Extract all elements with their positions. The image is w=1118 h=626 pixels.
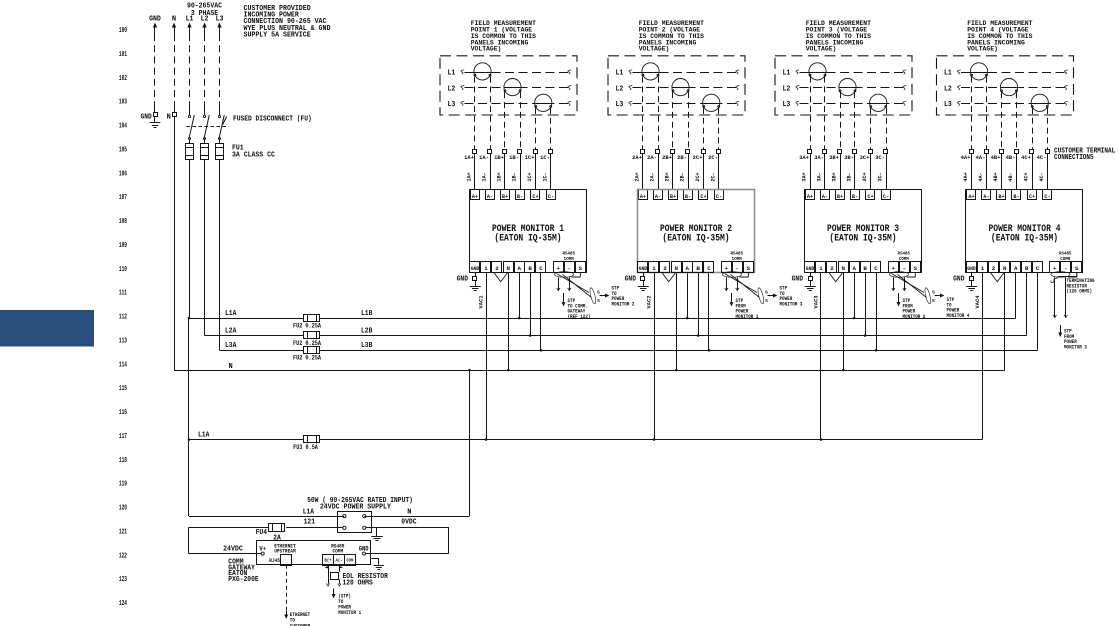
svg-text:2: 2 — [830, 265, 834, 272]
svg-text:C+: C+ — [867, 193, 874, 200]
svg-text:2A-: 2A- — [647, 154, 657, 161]
svg-text:120 OHMS: 120 OHMS — [343, 579, 373, 587]
svg-text:124: 124 — [119, 600, 127, 608]
svg-text:(EATON IQ-35M): (EATON IQ-35M) — [662, 233, 729, 245]
svg-text:C: C — [1036, 265, 1040, 272]
svg-text:B+: B+ — [670, 193, 677, 200]
svg-text:2B-: 2B- — [680, 172, 686, 181]
svg-text:3A+: 3A+ — [799, 154, 809, 161]
svg-text:GND: GND — [792, 276, 803, 284]
svg-text:N: N — [842, 265, 846, 272]
svg-text:A: A — [852, 265, 856, 272]
svg-text:1A-: 1A- — [482, 172, 488, 181]
svg-text:FU2 0.25A: FU2 0.25A — [293, 355, 321, 362]
svg-text:L3: L3 — [216, 16, 224, 24]
svg-text:FU2 0.25A: FU2 0.25A — [293, 323, 321, 330]
svg-text:105: 105 — [119, 146, 127, 154]
svg-text:MONITOR 1: MONITOR 1 — [736, 314, 759, 320]
svg-text:3A-: 3A- — [817, 172, 823, 181]
svg-text:102: 102 — [119, 75, 127, 83]
svg-text:VOLTAGE): VOLTAGE) — [471, 46, 502, 53]
svg-text:1C-: 1C- — [540, 154, 550, 161]
svg-text:2C+: 2C+ — [695, 172, 701, 181]
svg-text:100: 100 — [119, 27, 127, 35]
svg-text:N: N — [407, 508, 411, 516]
svg-text:1C-: 1C- — [543, 172, 549, 181]
svg-text:COMM: COMM — [732, 256, 742, 262]
svg-text:S: S — [1075, 265, 1079, 272]
svg-text:1B-: 1B- — [512, 172, 518, 181]
svg-text:S: S — [597, 290, 600, 296]
svg-text:24VDC: 24VDC — [223, 545, 243, 553]
svg-text:A-: A- — [487, 193, 493, 200]
svg-text:C+: C+ — [700, 193, 707, 200]
svg-text:2A+: 2A+ — [635, 172, 641, 181]
svg-text:GND: GND — [149, 16, 161, 24]
svg-text:2B+: 2B+ — [665, 172, 671, 181]
svg-text:L3: L3 — [783, 101, 791, 109]
svg-text:GND: GND — [359, 545, 369, 552]
svg-text:1: 1 — [652, 265, 656, 272]
svg-text:3A-: 3A- — [814, 154, 824, 161]
svg-text:L2: L2 — [616, 85, 624, 93]
svg-text:MONITOR 1: MONITOR 1 — [338, 610, 361, 616]
svg-text:122: 122 — [119, 552, 127, 560]
svg-text:UPSTREAM: UPSTREAM — [274, 549, 295, 555]
svg-text:1A+: 1A+ — [464, 154, 474, 161]
svg-text:L3: L3 — [616, 101, 624, 109]
svg-text:RS485: RS485 — [731, 251, 744, 257]
svg-text:A-: A- — [822, 193, 828, 200]
svg-text:4A+: 4A+ — [961, 154, 971, 161]
svg-text:111: 111 — [119, 290, 127, 298]
svg-text:S: S — [765, 298, 768, 304]
svg-text:120: 120 — [119, 505, 127, 513]
svg-text:VOLTAGE): VOLTAGE) — [639, 46, 670, 53]
svg-text:+: + — [892, 265, 896, 272]
svg-text:121: 121 — [304, 519, 315, 527]
svg-text:COMM: COMM — [1060, 256, 1070, 262]
svg-text:C: C — [539, 265, 543, 272]
svg-text:COMM: COMM — [564, 256, 574, 262]
svg-text:2C-: 2C- — [711, 172, 717, 181]
svg-text:GND: GND — [471, 266, 480, 272]
svg-text:A(-: A(- — [336, 559, 343, 564]
svg-text:B: B — [1025, 265, 1029, 272]
svg-text:4B-: 4B- — [1008, 172, 1014, 181]
svg-text:(REF 122): (REF 122) — [568, 314, 591, 320]
svg-text:MONITOR 2: MONITOR 2 — [612, 301, 635, 307]
svg-text:A-: A- — [983, 193, 989, 200]
svg-text:4B+: 4B+ — [993, 172, 999, 181]
svg-text:RS485: RS485 — [1059, 251, 1072, 257]
svg-text:1C+: 1C+ — [527, 172, 533, 181]
svg-text:L1A: L1A — [225, 310, 237, 318]
svg-text:B: B — [863, 265, 867, 272]
svg-text:C-: C- — [716, 193, 722, 200]
svg-text:1: 1 — [981, 265, 985, 272]
svg-text:A+: A+ — [968, 193, 975, 200]
svg-text:A+: A+ — [807, 193, 814, 200]
svg-text:1B+: 1B+ — [494, 154, 504, 161]
svg-text:VAC2: VAC2 — [645, 295, 652, 309]
svg-text:2: 2 — [992, 265, 996, 272]
svg-text:2: 2 — [663, 265, 667, 272]
svg-text:3A CLASS CC: 3A CLASS CC — [232, 152, 275, 160]
svg-text:A+: A+ — [640, 193, 647, 200]
svg-text:N: N — [172, 16, 176, 24]
svg-text:N: N — [1003, 265, 1007, 272]
svg-text:V+: V+ — [259, 545, 266, 552]
svg-text:RJ45: RJ45 — [269, 558, 280, 564]
svg-text:107: 107 — [119, 194, 127, 202]
svg-text:VAC4: VAC4 — [974, 295, 981, 309]
svg-text:B-: B- — [685, 193, 691, 200]
svg-text:S: S — [765, 290, 768, 296]
svg-text:L2: L2 — [944, 85, 952, 93]
svg-text:2C-: 2C- — [708, 154, 718, 161]
svg-text:L1: L1 — [616, 70, 624, 78]
svg-text:1C+: 1C+ — [525, 154, 535, 161]
svg-text:L2: L2 — [201, 16, 209, 24]
svg-text:COMM: COMM — [899, 256, 909, 262]
svg-text:4A+: 4A+ — [963, 172, 969, 181]
svg-text:FUSED DISCONNECT (FU): FUSED DISCONNECT (FU) — [233, 116, 312, 124]
svg-text:106: 106 — [119, 170, 127, 178]
svg-text:VOLTAGE): VOLTAGE) — [967, 46, 998, 53]
svg-text:4C-: 4C- — [1037, 154, 1047, 161]
svg-text:A: A — [517, 265, 521, 272]
svg-text:L3A: L3A — [225, 342, 237, 350]
svg-text:B: B — [696, 265, 700, 272]
svg-text:C-: C- — [883, 193, 889, 200]
svg-text:(EATON IQ-35M): (EATON IQ-35M) — [494, 233, 561, 245]
svg-text:S: S — [747, 265, 751, 272]
svg-text:1B+: 1B+ — [497, 172, 503, 181]
svg-text:+: + — [557, 265, 561, 272]
svg-text:L3: L3 — [944, 101, 952, 109]
svg-text:2: 2 — [495, 265, 499, 272]
svg-text:(120 OHMS): (120 OHMS) — [1067, 289, 1093, 295]
svg-text:115: 115 — [119, 385, 127, 393]
svg-text:1A-: 1A- — [479, 154, 489, 161]
svg-text:2A-: 2A- — [650, 172, 656, 181]
svg-text:CONNECTIONS: CONNECTIONS — [1054, 154, 1094, 162]
svg-text:C: C — [874, 265, 878, 272]
svg-text:1: 1 — [484, 265, 488, 272]
svg-text:4A-: 4A- — [978, 172, 984, 181]
svg-text:SUPPLY 5A SERVICE: SUPPLY 5A SERVICE — [244, 32, 311, 40]
svg-text:GND: GND — [953, 276, 964, 284]
svg-text:S: S — [579, 265, 583, 272]
svg-text:COM: COM — [346, 560, 353, 564]
svg-text:FU3 0.5A: FU3 0.5A — [293, 444, 318, 451]
svg-text:S: S — [932, 290, 935, 296]
svg-text:108: 108 — [119, 218, 127, 226]
svg-text:0VDC: 0VDC — [401, 519, 416, 527]
svg-text:N: N — [167, 114, 171, 122]
svg-text:GND: GND — [639, 266, 648, 272]
svg-text:118: 118 — [119, 457, 127, 465]
svg-text:-: - — [1064, 265, 1067, 272]
svg-text:B(+: B(+ — [325, 559, 332, 564]
svg-text:+: + — [725, 265, 729, 272]
svg-text:24VDC POWER SUPPLY: 24VDC POWER SUPPLY — [320, 504, 392, 512]
svg-text:-: - — [903, 265, 906, 272]
svg-text:S: S — [597, 298, 600, 304]
svg-text:B-: B- — [1013, 193, 1019, 200]
svg-text:COMM: COMM — [332, 549, 343, 555]
svg-text:L1: L1 — [944, 70, 952, 78]
svg-text:3C+: 3C+ — [862, 172, 868, 181]
svg-text:VAC1: VAC1 — [477, 295, 484, 309]
svg-text:A+: A+ — [472, 193, 479, 200]
svg-text:L1B: L1B — [361, 310, 373, 318]
svg-text:L2B: L2B — [361, 328, 373, 336]
svg-text:S: S — [932, 298, 935, 304]
svg-text:3B-: 3B- — [844, 154, 854, 161]
svg-text:4B-: 4B- — [1006, 154, 1016, 161]
svg-text:MONITOR 2: MONITOR 2 — [903, 314, 926, 320]
svg-text:(EATON IQ-35M): (EATON IQ-35M) — [991, 233, 1058, 245]
svg-text:3A+: 3A+ — [802, 172, 808, 181]
svg-text:C: C — [707, 265, 711, 272]
svg-text:(EATON IQ-35M): (EATON IQ-35M) — [829, 233, 896, 245]
svg-text:2A+: 2A+ — [632, 154, 642, 161]
svg-text:-: - — [736, 265, 739, 272]
svg-text:GND: GND — [141, 114, 152, 122]
svg-text:L1: L1 — [448, 70, 456, 78]
svg-text:PXG-200E: PXG-200E — [228, 576, 258, 584]
svg-text:104: 104 — [119, 123, 127, 131]
svg-text:B+: B+ — [998, 193, 1005, 200]
svg-text:A: A — [685, 265, 689, 272]
svg-text:4B+: 4B+ — [991, 154, 1001, 161]
svg-text:2B+: 2B+ — [662, 154, 672, 161]
svg-text:A: A — [1014, 265, 1018, 272]
svg-text:B+: B+ — [837, 193, 844, 200]
svg-text:B-: B- — [852, 193, 858, 200]
svg-text:L2A: L2A — [225, 328, 237, 336]
svg-text:3C+: 3C+ — [860, 154, 870, 161]
svg-text:C+: C+ — [1029, 193, 1036, 200]
svg-text:GND: GND — [806, 266, 815, 272]
svg-text:109: 109 — [119, 242, 127, 250]
svg-text:3C-: 3C- — [878, 172, 884, 181]
svg-text:113: 113 — [119, 337, 127, 345]
svg-text:121: 121 — [119, 528, 127, 536]
svg-text:4A-: 4A- — [976, 154, 986, 161]
svg-text:FU4: FU4 — [256, 529, 267, 537]
svg-text:GND: GND — [625, 276, 636, 284]
svg-text:4C-: 4C- — [1039, 172, 1045, 181]
svg-text:3B+: 3B+ — [829, 154, 839, 161]
svg-text:L1A: L1A — [198, 432, 210, 440]
svg-text:L3: L3 — [448, 101, 456, 109]
svg-text:MONITOR 4: MONITOR 4 — [947, 313, 970, 319]
svg-text:123: 123 — [119, 576, 127, 584]
svg-text:L2: L2 — [448, 85, 456, 93]
svg-text:1B-: 1B- — [509, 154, 519, 161]
svg-text:C-: C- — [548, 193, 554, 200]
svg-text:1A+: 1A+ — [467, 172, 473, 181]
svg-text:VAC3: VAC3 — [812, 295, 819, 309]
svg-text:VOLTAGE): VOLTAGE) — [806, 46, 837, 53]
svg-text:GND: GND — [967, 266, 976, 272]
svg-text:L3B: L3B — [361, 342, 373, 350]
svg-text:112: 112 — [119, 314, 127, 322]
svg-text:B+: B+ — [502, 193, 509, 200]
svg-text:110: 110 — [119, 266, 127, 274]
svg-text:L1: L1 — [783, 70, 791, 78]
svg-text:S: S — [914, 265, 918, 272]
svg-text:B: B — [528, 265, 532, 272]
svg-text:RS485: RS485 — [898, 251, 911, 257]
svg-text:117: 117 — [119, 433, 127, 441]
svg-text:114: 114 — [119, 361, 127, 369]
svg-text:L1: L1 — [186, 16, 194, 24]
svg-text:RS485: RS485 — [563, 251, 576, 257]
svg-text:A-: A- — [655, 193, 661, 200]
svg-text:C+: C+ — [532, 193, 539, 200]
svg-text:GND: GND — [457, 276, 468, 284]
svg-text:2C+: 2C+ — [693, 154, 703, 161]
svg-text:MONITOR 3: MONITOR 3 — [780, 301, 803, 307]
svg-text:4C+: 4C+ — [1021, 154, 1031, 161]
svg-text:+: + — [1053, 265, 1057, 272]
svg-text:4C+: 4C+ — [1024, 172, 1030, 181]
svg-text:B-: B- — [517, 193, 523, 200]
svg-text:1: 1 — [819, 265, 823, 272]
svg-text:MONITOR 3: MONITOR 3 — [1064, 344, 1087, 350]
svg-text:-: - — [568, 265, 571, 272]
svg-text:N: N — [229, 363, 233, 371]
svg-text:2A: 2A — [273, 535, 281, 543]
svg-text:L2: L2 — [783, 85, 791, 93]
svg-text:119: 119 — [119, 481, 127, 489]
svg-text:N: N — [675, 265, 679, 272]
svg-text:L1A: L1A — [303, 508, 315, 516]
svg-text:3B+: 3B+ — [832, 172, 838, 181]
svg-text:2B-: 2B- — [677, 154, 687, 161]
svg-text:C-: C- — [1044, 193, 1050, 200]
svg-text:3C-: 3C- — [875, 154, 885, 161]
svg-text:116: 116 — [119, 409, 127, 417]
svg-text:3B-: 3B- — [847, 172, 853, 181]
svg-text:N: N — [507, 265, 511, 272]
svg-text:101: 101 — [119, 51, 127, 59]
svg-text:103: 103 — [119, 99, 127, 107]
